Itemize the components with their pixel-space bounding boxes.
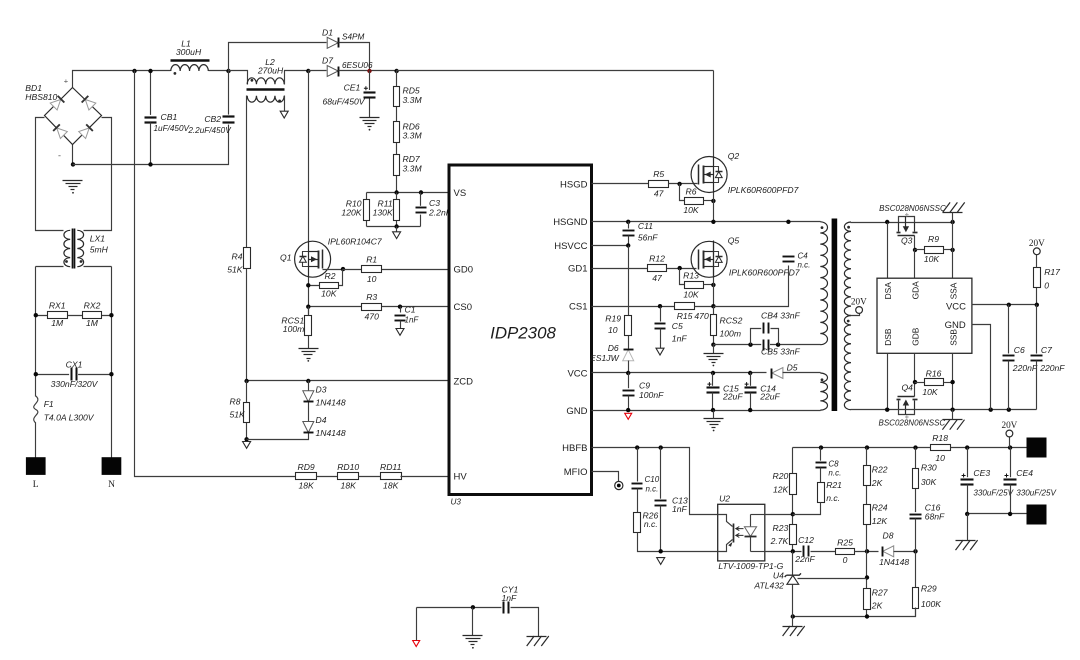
capacitor C5 (654, 321, 687, 344)
wire C10 to R26 (637, 489, 639, 533)
wire C6 stem (1008, 305, 1010, 354)
junction HSVCC C11 (626, 243, 630, 247)
wire C7 stem (1036, 305, 1038, 354)
svg-text:R22: R22 (872, 465, 888, 475)
junction VCC R17/C7 (1035, 303, 1039, 307)
ground R8 (open triangle) (243, 442, 251, 449)
junction RX row right (109, 313, 113, 317)
junction bridge bottom node (71, 162, 75, 166)
svg-text:Q2: Q2 (728, 151, 740, 161)
wire bridge top to bus (73, 71, 135, 88)
junction ref node (865, 575, 869, 579)
svg-text:DSA: DSA (883, 282, 893, 300)
junction GDB R16 (913, 380, 917, 384)
wire U4 cathode (792, 552, 794, 576)
junction RCS2 bottom (711, 343, 715, 347)
resistor R30 (913, 469, 919, 489)
svg-text:10K: 10K (922, 387, 939, 397)
wire C1 stem (400, 307, 402, 313)
wire CS1 line (592, 306, 675, 308)
wire CB5 line (714, 344, 821, 346)
resistor RD9 (296, 462, 317, 491)
svg-text:R21: R21 (826, 480, 842, 490)
svg-text:47: 47 (654, 189, 665, 199)
transformer T1 primary upper winding (820, 222, 827, 345)
wire output chassis stem (967, 514, 969, 541)
svg-text:+: + (64, 77, 69, 86)
svg-text:51K: 51K (227, 265, 244, 275)
wire C13 stem (660, 448, 662, 501)
ground VCC rail (704, 419, 724, 432)
svg-text:10K: 10K (683, 205, 700, 215)
wire negative rail (73, 123, 229, 165)
ground RCS1 (299, 349, 319, 362)
wire CS1 to C4 (714, 266, 789, 307)
svg-text:n.c.: n.c. (798, 261, 811, 270)
bridge rectifier BD1 (25, 77, 101, 161)
node MFIO test point (615, 481, 623, 489)
svg-text:68nF: 68nF (925, 512, 945, 522)
wire CE4 bottom (1010, 485, 1012, 514)
wire CE1 stem (369, 71, 371, 91)
diode D5 (772, 362, 798, 378)
wire HBFB line (592, 448, 718, 515)
junction C6 rail (1007, 408, 1011, 412)
resistor R16 (922, 368, 943, 397)
junction VS C3 top (419, 190, 423, 194)
svg-text:1nF: 1nF (672, 334, 688, 344)
wire chassis stem Q4 (952, 410, 954, 420)
inductor LX1 (64, 229, 109, 269)
svg-text:CB5: CB5 (761, 346, 778, 356)
svg-text:47: 47 (652, 273, 663, 283)
svg-text:VCC: VCC (946, 301, 966, 312)
svg-text:30K: 30K (921, 477, 938, 487)
transistor Q2 (691, 151, 800, 195)
capacitor C15 (707, 382, 744, 401)
wire bus L1 to junction (209, 70, 229, 72)
wire SSB vertical (952, 354, 954, 410)
svg-text:22uF: 22uF (722, 391, 743, 401)
wire R18 to 20V node (951, 447, 1027, 449)
svg-text:22nF: 22nF (794, 554, 815, 564)
svg-text:U2: U2 (719, 494, 730, 504)
resistor R17 (1034, 267, 1062, 290)
svg-text:R16: R16 (926, 368, 942, 378)
resistor RD10 (337, 462, 359, 491)
wire R20 branch (792, 448, 794, 552)
wire Q1 source (308, 277, 310, 315)
node 20V center tap (851, 296, 867, 313)
wire R6 to source (704, 200, 714, 202)
svg-text:270uH: 270uH (257, 65, 284, 75)
svg-text:20V: 20V (851, 296, 867, 306)
capacitor CE4 (1004, 468, 1058, 497)
svg-text:VS: VS (454, 188, 467, 199)
svg-text:ATL432: ATL432 (753, 580, 784, 590)
wire R19 branch (628, 246, 630, 349)
svg-text:F1: F1 (44, 399, 54, 409)
svg-text:LX1: LX1 (90, 233, 106, 243)
wire D5 to transformer (783, 372, 821, 374)
svg-text:10K: 10K (321, 288, 338, 298)
svg-text:GDB: GDB (911, 327, 921, 346)
junction CS1 RCS2 (711, 304, 715, 308)
svg-text:D6: D6 (608, 343, 619, 353)
ground CY1 (463, 636, 483, 649)
junction CB right (776, 343, 780, 347)
resistor R15 (675, 0, 695, 310)
svg-text:C1: C1 (405, 305, 416, 315)
ground C13 (open triangle) (657, 558, 665, 565)
svg-text:130K: 130K (373, 208, 394, 218)
svg-text:RD10: RD10 (337, 462, 359, 472)
svg-text:R27: R27 (872, 587, 889, 597)
label R17 0 (0, 0, 1, 1)
capacitor C6 (1003, 345, 1038, 373)
wire D3 D4 chain (247, 381, 309, 440)
svg-text:LTV-1009-TP1-G: LTV-1009-TP1-G (718, 561, 783, 571)
wire D8 to C16 node (894, 551, 916, 553)
junction DSA node (885, 220, 889, 224)
wire C5 to gnd arrow (660, 329, 662, 349)
wire CY1 earth stem (472, 608, 474, 636)
resistor R20 (773, 471, 797, 494)
svg-text:IDP2308: IDP2308 (490, 324, 556, 343)
svg-text:2.2uF/450V: 2.2uF/450V (187, 126, 232, 135)
svg-text:D1: D1 (322, 27, 333, 37)
junction R23 C12 line (791, 549, 795, 553)
wire R12 to gate (667, 268, 697, 270)
svg-text:RX2: RX2 (84, 301, 101, 311)
svg-text:RD11: RD11 (380, 462, 402, 472)
resistor R18 (931, 433, 951, 463)
wire L2 primary out (285, 71, 309, 85)
wire CS0 line (309, 306, 449, 308)
wire C9 bottom (628, 396, 630, 411)
wire Q1 drain (308, 71, 310, 243)
capacitor C12 (794, 535, 815, 564)
svg-text:470: 470 (677, 0, 692, 2)
junction SSB rail (950, 408, 954, 412)
junction CY1 earth tap (471, 605, 475, 609)
wire HSGD line (592, 183, 649, 185)
wire bridge bottom (72, 145, 74, 165)
wire secondary top line (851, 222, 953, 224)
capacitor CB1 (144, 112, 191, 133)
wire output rail top (793, 447, 931, 449)
capacitor C7 (1031, 345, 1066, 373)
svg-text:68uF/450V: 68uF/450V (322, 96, 365, 106)
svg-text:R9: R9 (928, 234, 939, 244)
svg-text:D8: D8 (883, 531, 894, 541)
transformer L2 (247, 57, 285, 102)
capacitor C10 (631, 475, 659, 493)
svg-text:300uH: 300uH (176, 47, 202, 57)
wire C13 bottom (660, 506, 662, 552)
wire secondary bottom rail (851, 409, 1037, 411)
wire U2 anode to node (765, 514, 793, 516)
svg-text:HSGND: HSGND (553, 217, 587, 228)
wire RD chain (396, 71, 398, 193)
svg-text:R30: R30 (921, 462, 937, 472)
wire R9 right stub (944, 249, 953, 251)
junction HSGND C4 (786, 220, 790, 224)
resistor RD5 (394, 87, 400, 107)
svg-text:18K: 18K (298, 481, 315, 491)
wire R16 left stub (915, 382, 925, 384)
wire divider bottom (367, 226, 421, 228)
resistor R22 (864, 465, 888, 488)
resistor RD11 (380, 462, 402, 491)
wire U2 cathode to C12 line (765, 551, 802, 553)
wire C15 bottom (712, 393, 714, 411)
wire R30 chain (915, 448, 917, 515)
svg-text:R8: R8 (230, 397, 241, 407)
label RD7 (403, 154, 423, 173)
svg-text:R24: R24 (872, 503, 888, 513)
svg-text:CB2: CB2 (204, 114, 221, 124)
svg-text:n.c.: n.c. (644, 519, 658, 529)
wire RD9-RD10 (317, 476, 339, 478)
label RD6 (403, 121, 423, 140)
junction GND C15 (711, 408, 715, 412)
wire RCS1 (308, 307, 310, 349)
ground bridge (63, 181, 83, 194)
wire R17 top (1036, 255, 1038, 268)
svg-text:R12: R12 (649, 253, 665, 263)
junction R16 SSB line (950, 380, 954, 384)
svg-text:6ESU06: 6ESU06 (342, 61, 373, 70)
wire LX1 left bottom stub (36, 266, 64, 268)
node primary ground (red triangle) (625, 413, 632, 419)
junction ZCD R4/R8 (244, 379, 248, 383)
junction R8 bottom (244, 437, 248, 441)
wire AC L input vertical (35, 423, 37, 475)
junction rail R22 (865, 445, 869, 449)
svg-text:1N4148: 1N4148 (316, 428, 346, 438)
wire C5 stem (660, 307, 662, 322)
junction CB left (748, 343, 752, 347)
svg-text:100m: 100m (283, 324, 305, 334)
capacitor C3 (415, 198, 452, 217)
wire R15 to RCS2 node (695, 306, 714, 308)
resistor R3 (362, 292, 382, 322)
junction GND C14 (748, 408, 752, 412)
svg-text:ES1JW: ES1JW (590, 353, 620, 363)
capacitor CE3 (961, 468, 1015, 497)
svg-text:n.c.: n.c. (826, 493, 840, 503)
wire L2 secondary right to gnd arrow (284, 96, 286, 112)
diode D4 (303, 415, 346, 438)
wire RD11 to HV pin (401, 476, 449, 478)
resistor R13 (683, 270, 703, 299)
wire CB1 bottom (150, 123, 152, 165)
resistor R24 (864, 503, 889, 526)
svg-text:56nF: 56nF (638, 233, 658, 243)
ground VS divider (open triangle) (393, 232, 401, 239)
junction R9 SSA line (950, 248, 954, 252)
wire output return rail (968, 513, 1027, 515)
wire U4 anode (792, 585, 794, 617)
junction rail R30 (913, 445, 917, 449)
junction D8 C16 (913, 549, 917, 553)
wire R13 to source (704, 284, 714, 286)
junction D1/D7 node (367, 69, 371, 73)
junction VCC D6 (626, 371, 630, 375)
inductor L1 (171, 39, 210, 75)
junction CB1 top (148, 69, 152, 73)
junction C1 top (398, 305, 402, 309)
resistor R4 (227, 248, 250, 275)
wire D1 branch (229, 43, 327, 71)
resistor R1 (362, 254, 382, 284)
svg-text:C11: C11 (638, 221, 653, 231)
junction RX row left (34, 313, 38, 317)
op-amp U3 controller IDP2308 (449, 165, 592, 507)
wire LX1 left top stub (36, 118, 64, 231)
ground chassis CY1 (527, 636, 549, 646)
svg-text:C5: C5 (672, 321, 683, 331)
transistor U4 shunt regulator ATL432 (753, 571, 801, 591)
svg-text:R29: R29 (921, 584, 937, 594)
svg-text:BSC028N06NSSC: BSC028N06NSSC (879, 418, 946, 427)
svg-text:1nF: 1nF (405, 315, 420, 324)
svg-text:1M: 1M (51, 318, 64, 328)
wire C1 to gnd arrow (400, 321, 402, 329)
wire secondary tap (851, 314, 860, 316)
resistor RCS1 (305, 316, 312, 336)
svg-text:RCS2: RCS2 (720, 315, 743, 325)
svg-text:3.3M: 3.3M (403, 95, 423, 105)
svg-text:GD0: GD0 (454, 265, 474, 276)
resistor R12 (648, 253, 667, 283)
svg-text:C7: C7 (1041, 345, 1053, 355)
resistor R8 (230, 397, 250, 423)
capacitor C16 (910, 502, 946, 521)
label R10 (341, 198, 362, 217)
svg-text:100m: 100m (720, 329, 742, 339)
wire R4 to ZCD (246, 269, 248, 381)
wire CX1 row (36, 374, 112, 376)
svg-text:R1: R1 (366, 254, 377, 264)
svg-text:R20: R20 (773, 471, 789, 481)
wire R2 branch (309, 285, 339, 287)
wire HSVCC line (592, 245, 629, 247)
svg-text:C10: C10 (645, 475, 660, 484)
capacitor CB4 (761, 310, 801, 333)
wire CY1 line (417, 607, 502, 609)
svg-text:-: - (58, 151, 61, 161)
svg-text:CX1: CX1 (66, 359, 83, 369)
junction Q3 right (950, 220, 954, 224)
ground L2 secondary (open triangle) (280, 111, 288, 118)
svg-text:IPL60R104C7: IPL60R104C7 (328, 237, 383, 247)
wire fuse to CX1/RX1/LX1 left (35, 267, 37, 397)
wire C14 bottom (750, 393, 752, 411)
diode D8 (879, 531, 909, 567)
junction bus x134.5 (132, 69, 136, 73)
svg-text:S4PM: S4PM (342, 33, 364, 42)
svg-text:220nF: 220nF (1012, 363, 1038, 373)
diode D1 (322, 27, 364, 48)
label R15 value (677, 311, 709, 321)
node CY1 red triangle (413, 608, 420, 647)
ground CE1 (360, 118, 380, 131)
resistor R11 (394, 200, 400, 221)
svg-text:R3: R3 (366, 292, 377, 302)
ground C5 (open triangle) (656, 348, 664, 355)
junction CX1 left (34, 372, 38, 376)
svg-text:C6: C6 (1014, 345, 1025, 355)
wire R20 to node (792, 514, 794, 516)
wire CB4 loop (751, 329, 779, 345)
label RD5 (403, 86, 423, 105)
capacitor C14 (744, 382, 781, 401)
wire ZCD line (247, 380, 449, 382)
svg-text:3.3M: 3.3M (403, 164, 423, 174)
svg-text:10K: 10K (683, 289, 700, 299)
capacitor CB2 (187, 114, 235, 135)
svg-text:HSVCC: HSVCC (554, 241, 587, 252)
svg-text:HSGD: HSGD (560, 179, 588, 190)
wire U4 chassis stem (792, 617, 794, 627)
wire CY1 to chassis (511, 608, 539, 637)
wire bus junction to L2 (229, 71, 248, 85)
wire GDA vertical (914, 250, 916, 279)
wire long vertical to HV line (135, 71, 296, 477)
svg-text:2K: 2K (871, 478, 884, 488)
svg-text:1uF/450V: 1uF/450V (154, 124, 191, 133)
label R29 (921, 584, 942, 610)
capacitor C9 (622, 380, 664, 400)
svg-text:220nF: 220nF (1039, 363, 1065, 373)
ground chassis output (956, 540, 978, 550)
resistor RX1 (48, 301, 68, 328)
junction bottom rail R27 (865, 614, 869, 618)
svg-text:CB1: CB1 (161, 112, 178, 122)
wire C7 bottom (1036, 361, 1038, 410)
svg-text:330nF/320V: 330nF/320V (51, 379, 99, 389)
svg-text:51K: 51K (230, 410, 247, 420)
svg-text:IPLK60R600PFD7: IPLK60R600PFD7 (728, 185, 800, 195)
junction VS R11 top (394, 190, 398, 194)
junction RD5 tap (394, 69, 398, 73)
wire GND line (592, 410, 821, 412)
svg-text:12K: 12K (872, 516, 889, 526)
svg-text:HV: HV (454, 472, 468, 483)
resistor R10 (364, 200, 370, 221)
label R26 name/value (643, 511, 659, 530)
wire D1 cathode down (339, 43, 370, 71)
svg-text:D4: D4 (316, 415, 327, 425)
wire bus RD5 to Q2 drain (397, 70, 714, 72)
wire CB2 stem (228, 71, 230, 117)
wire C8 to R21 (820, 468, 822, 503)
terminal N (102, 457, 122, 490)
wire C8 stem (820, 448, 822, 463)
junction C13 gnd rail (659, 549, 663, 553)
wire Q5 channel (713, 242, 715, 307)
junction HSGND switch node (711, 220, 715, 224)
junction R6 source (711, 199, 715, 203)
junction HSGND C11 (626, 220, 630, 224)
junction bus Q1 drain tap (306, 69, 310, 73)
wire C9 stem (628, 373, 630, 391)
svg-text:470: 470 (694, 311, 709, 321)
wire R2 up to gate node (339, 270, 343, 286)
wire MFIO stub (592, 472, 619, 482)
